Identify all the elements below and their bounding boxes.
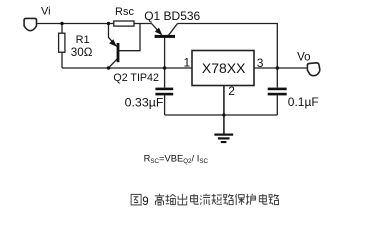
transistor Q2 collector wire <box>109 58 118 68</box>
svg-text:R1: R1 <box>76 34 90 46</box>
caption char bao (protect) <box>235 194 244 205</box>
wire: pin2 stem to ground <box>223 86 225 134</box>
svg-text:30Ω: 30Ω <box>71 46 93 59</box>
caption char gao (high) <box>155 194 164 205</box>
capacitor C2 plates <box>268 88 287 91</box>
svg-text:Rsc: Rsc <box>115 6 134 18</box>
caption char liu (flow) <box>200 194 210 205</box>
svg-text:0.33µF: 0.33µF <box>125 96 164 110</box>
capacitor C2 0.1uF wire <box>276 95 278 115</box>
transistor Q1 base bar <box>155 35 175 38</box>
capacitor C1 0.33uF wires <box>164 68 166 115</box>
resistor Rsc <box>114 21 134 26</box>
caption: fig 9 chinese text drawn as strokes <box>131 194 141 205</box>
transistor Q2 emitter wire <box>109 24 117 47</box>
svg-text:3: 3 <box>257 56 264 70</box>
caption char dian2 (electric) <box>259 194 267 204</box>
svg-text:Vo: Vo <box>297 51 310 63</box>
svg-text:RSC=VBEQ2/ ISC: RSC=VBEQ2/ ISC <box>144 152 209 165</box>
junction dot node A (Vi/R1) <box>60 22 63 25</box>
svg-text:Vi: Vi <box>41 6 51 18</box>
svg-text:1: 1 <box>184 56 191 70</box>
transistor Q1 collector wire <box>169 24 178 36</box>
caption char chu (out) <box>178 194 187 205</box>
wire: Vi to Rsc left <box>36 23 113 25</box>
transistor Q1 emitter arrowhead <box>155 28 162 35</box>
wire: Q1 collector to output corner <box>178 24 278 88</box>
junction dot node C (Q2 collector/input rail) <box>107 66 110 69</box>
caption char shu (transport) <box>166 194 176 204</box>
junction dot node B (Q2 emitter) <box>107 22 110 25</box>
capacitor C1 plates <box>155 88 173 91</box>
transistor Q2 base bar <box>117 43 120 62</box>
svg-text:2: 2 <box>228 84 235 98</box>
svg-text:9: 9 <box>142 196 148 208</box>
junction dot node F (pin2/ground rail) <box>222 113 225 116</box>
junction dot node E (output/C2) <box>276 66 279 69</box>
transistor Q1 emitter wire <box>152 24 162 35</box>
svg-text:0.1µF: 0.1µF <box>288 95 319 109</box>
svg-text:X78XX: X78XX <box>202 60 246 76</box>
wire: Rsc right to Q1 emitter <box>134 23 152 25</box>
port Vi <box>24 18 36 30</box>
transistor Q2 emitter arrowhead <box>109 39 116 46</box>
wire: input rail R1 to X78XX pin1 <box>62 67 192 69</box>
svg-text:Q2 TIP42: Q2 TIP42 <box>113 72 159 84</box>
junction dot node D (Q1 base/C1) <box>163 66 166 69</box>
caption char dian (electric) <box>191 194 199 204</box>
caption char tu (figure) <box>131 194 141 205</box>
port Vo <box>307 63 319 76</box>
caption char duan (short) <box>212 194 222 204</box>
caption char lu (road) <box>224 194 234 205</box>
transistor Q1 base wire <box>164 38 166 68</box>
wire: pin3 to Vo <box>254 67 307 69</box>
svg-text:Q1 BD536: Q1 BD536 <box>144 9 200 23</box>
resistor R1 <box>59 24 65 69</box>
wire: ground rail <box>165 114 278 116</box>
caption char lu2 (road) <box>269 194 279 205</box>
ic U1 X78XX box <box>192 51 254 86</box>
caption char hu (guard) <box>246 194 256 205</box>
transistor Q2 base wire <box>119 24 140 51</box>
ground symbol <box>214 134 233 144</box>
